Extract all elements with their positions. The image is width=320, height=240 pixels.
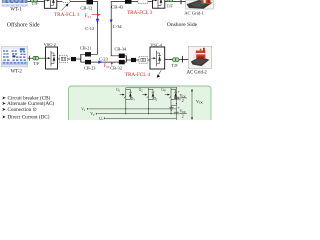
current direction arrow (blue) on C-12 <box>96 19 99 24</box>
wire (row2 left) <box>28 57 46 59</box>
svg-text:CB-23: CB-23 <box>84 65 97 70</box>
svg-text:Onshore Side: Onshore Side <box>167 22 198 28</box>
wire CB-32 to bus 3 <box>125 61 127 63</box>
svg-text:VSC-2: VSC-2 <box>44 42 56 47</box>
IGBT module 2 (G2/D2) <box>142 88 154 114</box>
junction tick (row1 right) <box>180 0 182 4</box>
svg-text:GN: GN <box>161 88 166 93</box>
circuit breaker CB-21 <box>85 52 91 56</box>
svg-text:Offshore Side: Offshore Side <box>7 21 40 28</box>
svg-text:WT-1: WT-1 <box>10 7 22 12</box>
svg-text:T/F: T/F <box>33 61 40 66</box>
FCL dashed box 4 <box>139 56 148 63</box>
module top rail <box>126 87 177 89</box>
svg-text:TRA-FCL 1: TRA-FCL 1 <box>54 12 80 18</box>
svg-text:Vs: Vs <box>81 107 85 112</box>
rail Vp <box>97 113 176 115</box>
transformer T/F (WT-2) <box>33 56 37 60</box>
svg-text:AC Grid-1: AC Grid-1 <box>184 10 204 15</box>
connector (black square) <box>131 58 136 62</box>
connector (black square) <box>71 57 76 61</box>
junction tick <box>29 56 31 61</box>
rail arrowhead <box>87 108 88 110</box>
capacitor plates (upper) <box>174 96 179 98</box>
svg-text:WT-2: WT-2 <box>11 69 23 74</box>
rail Uc <box>105 117 176 119</box>
wire VSC-2 to FCL <box>58 58 60 60</box>
FCL dashed box 3 (cut at top) <box>138 0 148 3</box>
circuit breaker CB-43 <box>125 0 132 4</box>
IGBT module 1 (G1/D1) <box>120 88 132 114</box>
wind farm WT-2 photo <box>2 47 28 67</box>
svg-text:VDC: VDC <box>180 94 187 99</box>
svg-text:2: 2 <box>182 99 184 103</box>
svg-text:➤ Direct Current (DC): ➤ Direct Current (DC) <box>2 113 50 120</box>
wire <box>136 59 139 61</box>
current direction arrow (blue) on C-34 <box>110 20 113 24</box>
ground <box>169 106 176 111</box>
svg-text:C-12: C-12 <box>85 26 94 31</box>
svg-text:T/F: T/F <box>171 63 178 68</box>
circuit breaker CB-34 <box>119 54 125 58</box>
current direction arrow (blue) on C-23 <box>98 61 102 64</box>
TRA-FCL detail box (green) <box>69 86 212 126</box>
wire <box>148 59 150 61</box>
svg-text:T/F: T/F <box>167 4 174 9</box>
VDC arrow <box>191 89 193 120</box>
annotation arrow (TRA-FCL 4) <box>157 70 162 78</box>
bus node 2 <box>80 54 82 62</box>
svg-text:C-23: C-23 <box>99 57 109 62</box>
svg-text:2: 2 <box>182 114 184 118</box>
transformer T/F (grid1), cut at top <box>167 0 171 2</box>
IGBT module N (GN/DN) <box>165 88 177 114</box>
junction dots on rails <box>125 87 177 114</box>
circuit breaker CB-12 <box>87 0 94 4</box>
svg-text:TRA-FCL 3: TRA-FCL 3 <box>127 10 153 16</box>
svg-text:TRA-FCL 4: TRA-FCL 4 <box>125 72 151 78</box>
transformer T/F (WT-1), cut at top <box>30 0 34 2</box>
annotation arrow (TRA-FCL 1) <box>61 3 68 10</box>
AC Grid-1 photo (cut at top) <box>186 0 214 9</box>
FCL dashed box 2 <box>60 55 68 62</box>
converter VSC-4 box <box>150 47 165 69</box>
wire VSC-4 to T/F <box>165 59 189 61</box>
label +Vdc/2 (lower) <box>178 105 187 119</box>
svg-text:CB-32: CB-32 <box>110 65 122 70</box>
wire (row1 right) <box>132 1 186 3</box>
wire FCL to connector <box>68 58 71 60</box>
bus node 3 <box>125 55 127 62</box>
FCL dashed box 1 (cut at top) <box>62 0 70 2</box>
wire bus2 upper branch <box>81 53 98 55</box>
svg-text:➤ Connection ⊙: ➤ Connection ⊙ <box>2 107 37 113</box>
wire (row1 left) <box>27 1 97 3</box>
svg-text:AC Grid-2: AC Grid-2 <box>187 70 208 75</box>
wire bus2 lower branch <box>81 61 119 63</box>
svg-text:Vp: Vp <box>90 112 95 117</box>
wire bus3 upper branch + cable C-34 <box>111 2 126 56</box>
svg-text:F01: F01 <box>85 14 91 19</box>
svg-text:C-34: C-34 <box>113 24 123 29</box>
junction tick <box>181 56 183 63</box>
svg-text:D1: D1 <box>131 97 136 102</box>
transformer T/F (grid2) <box>173 58 177 62</box>
converter VSC-1 box (cut at top) <box>44 0 56 8</box>
svg-text:CB-43: CB-43 <box>111 4 124 9</box>
converter VSC-2 box <box>46 47 58 69</box>
svg-text:F02: F02 <box>104 64 110 69</box>
svg-text:CB-21: CB-21 <box>80 46 92 51</box>
converter VSC-3 box (cut at top) <box>153 0 165 8</box>
svg-text:T/F: T/F <box>32 1 39 6</box>
wire connector to bus 2 <box>76 58 81 60</box>
AC Grid-2 photo <box>189 46 212 68</box>
fault marker F02 <box>104 62 114 70</box>
svg-text:VSC-4: VSC-4 <box>150 42 163 47</box>
fault marker F01 <box>85 14 101 19</box>
circuit breaker CB-32 <box>119 60 125 64</box>
svg-text:VDC: VDC <box>196 99 204 105</box>
svg-text:CB-34: CB-34 <box>115 46 128 51</box>
circuit breaker CB-23 <box>85 60 91 64</box>
svg-text:CB-12: CB-12 <box>80 5 92 10</box>
cable C-12 (vertical) <box>97 1 99 54</box>
wind farm WT-1 photo <box>2 0 27 6</box>
rail Vs <box>88 108 176 110</box>
capacitor plates (lower) <box>174 111 179 113</box>
wire bus3 to VSC-4 <box>126 59 131 61</box>
label +Vdc/2 (upper) <box>178 89 187 103</box>
DC-link leg <box>175 88 177 120</box>
